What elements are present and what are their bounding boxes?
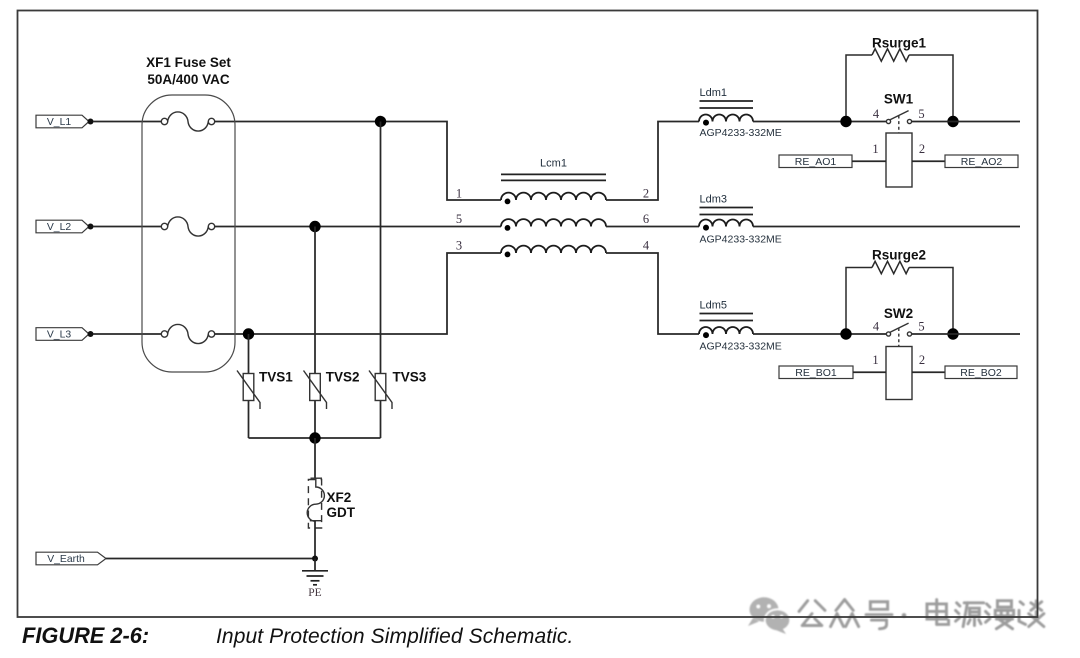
ground PE — [302, 559, 328, 585]
inductor Lcm1 winding 1-2 — [501, 193, 606, 200]
watermark glyph yuan — [956, 603, 984, 627]
fuse F1 (XF1-A) — [161, 112, 214, 131]
inductor Ldm3 core bars — [700, 208, 754, 215]
resistor Rsurge1 — [846, 49, 953, 122]
relay coil box SW2 — [886, 347, 912, 400]
junction dot SW2 left — [840, 328, 851, 339]
svg-text:2: 2 — [643, 187, 649, 201]
svg-text:6: 6 — [643, 212, 649, 226]
svg-text:50A/400 VAC: 50A/400 VAC — [147, 72, 230, 87]
terminal box RE_BO1 — [779, 366, 853, 379]
inductor Lcm1 winding 5-6 — [501, 219, 606, 226]
svg-text:Ldm5: Ldm5 — [700, 300, 728, 312]
wire Ldm3 to right — [753, 226, 1020, 228]
switch SW2 — [886, 323, 911, 346]
svg-text:RE_AO2: RE_AO2 — [961, 156, 1003, 168]
wire Lcm1 pin6 to Ldm3 — [606, 226, 699, 228]
svg-text:Rsurge2: Rsurge2 — [872, 248, 926, 263]
fuse F3 (XF1-C) — [161, 324, 214, 343]
wire SW2 to right — [912, 333, 1020, 335]
svg-text:5: 5 — [918, 107, 924, 121]
svg-text:5: 5 — [918, 320, 924, 334]
transformer Lcm1 core bars — [501, 174, 606, 180]
svg-text:1: 1 — [456, 187, 462, 201]
svg-text:V_L3: V_L3 — [47, 330, 71, 341]
wire TVS bus to GDT — [314, 438, 316, 478]
varistor TVS2 — [304, 371, 327, 410]
svg-text:SW1: SW1 — [884, 92, 914, 107]
resistor Rsurge2 — [846, 261, 953, 334]
varistor TVS3 — [369, 371, 392, 410]
wire V_L2 fuse to Lcm1 pin5 — [215, 226, 501, 228]
svg-text:RE_AO1: RE_AO1 — [795, 156, 837, 168]
svg-text:1: 1 — [872, 353, 878, 367]
wire V_Earth — [106, 558, 315, 560]
wire GDT to earth node — [314, 521, 316, 558]
svg-text:TVS2: TVS2 — [326, 370, 360, 385]
svg-text:AGP4233-332ME: AGP4233-332ME — [700, 234, 782, 246]
svg-text:Ldm3: Ldm3 — [700, 194, 728, 206]
wire V_L3 to fuse — [93, 333, 161, 335]
fuse F2 (XF1-B) — [161, 217, 214, 236]
XF1 fuse set outline — [142, 95, 235, 372]
junction dot TVS1 on V_L3 — [243, 328, 254, 339]
svg-text:GDT: GDT — [327, 505, 356, 520]
watermark glyph zhong — [831, 600, 859, 627]
junction dot SW1 right — [947, 116, 958, 127]
net flag V_Earth — [36, 552, 106, 565]
junction dot TVS bus — [309, 432, 320, 443]
phase dot Ldm1 — [703, 120, 709, 126]
junction dot SW2 right — [947, 328, 958, 339]
watermark glyph gong — [799, 601, 825, 626]
node dot V_L3 — [88, 331, 94, 337]
node dot earth — [312, 556, 318, 562]
wire TVS3 vertical — [380, 122, 382, 439]
wire Lcm1 pin4 to Ldm5 — [606, 253, 699, 334]
node dot V_L2 — [88, 224, 94, 230]
junction dot TVS2 on V_L2 — [309, 221, 320, 232]
svg-text:TVS3: TVS3 — [393, 370, 427, 385]
svg-text:V_Earth: V_Earth — [47, 554, 85, 565]
inductor Ldm5 core bars — [700, 314, 754, 321]
phase dot Ldm3 — [703, 225, 709, 231]
svg-text:FIGURE 2-6:: FIGURE 2-6: — [22, 623, 149, 648]
watermark glyph hao — [866, 602, 892, 629]
junction dot SW1 left — [840, 116, 851, 127]
watermark glyph tan — [1019, 601, 1044, 627]
svg-text:4: 4 — [873, 107, 880, 121]
inductor Ldm1 core bars — [700, 101, 754, 108]
svg-text:AGP4233-332ME: AGP4233-332ME — [700, 127, 782, 139]
gas discharge tube XF2 — [307, 478, 324, 528]
svg-text:PE: PE — [308, 587, 321, 599]
svg-text:V_L2: V_L2 — [47, 222, 71, 233]
watermark glyph dian — [927, 600, 949, 625]
phase dot Ldm5 — [703, 332, 709, 338]
wire V_L1 fuse to corner to Lcm1 pin1 — [215, 122, 501, 201]
wire SW1 to right — [912, 121, 1020, 123]
varistor TVS1 — [237, 371, 260, 410]
svg-text:Rsurge1: Rsurge1 — [872, 36, 927, 51]
inductor Ldm3 winding — [699, 220, 753, 227]
relay coil box SW1 — [886, 133, 912, 187]
svg-text:Lcm1: Lcm1 — [540, 158, 567, 170]
wire V_L1 to fuse — [93, 121, 161, 123]
svg-text:Input Protection Simplified Sc: Input Protection Simplified Schematic. — [216, 625, 573, 648]
wire relay pin2 to RE_AO2 — [912, 160, 945, 162]
watermark glyph man — [986, 601, 1014, 629]
terminal box RE_AO1 — [779, 155, 852, 168]
phase dot Lcm1 winding 5 — [505, 225, 511, 231]
svg-text:SW2: SW2 — [884, 306, 913, 321]
phase dot Lcm1 winding 1 — [505, 199, 511, 205]
wire relay pin2 to RE_BO2 — [912, 371, 945, 373]
svg-text:V_L1: V_L1 — [47, 117, 71, 128]
wire TVS2 vertical — [314, 227, 316, 439]
wire V_L2 to fuse — [93, 226, 161, 228]
wire RE_AO1 to relay pin1 — [852, 160, 886, 162]
wire Ldm5 to SW2 — [753, 333, 886, 335]
terminal box RE_AO2 — [945, 155, 1018, 168]
wire RE_BO1 to relay pin1 — [853, 371, 886, 373]
wire Lcm1 pin2 to Ldm1 — [606, 122, 699, 201]
net flag V_L3 — [36, 328, 89, 341]
switch SW1 — [886, 111, 911, 133]
watermark wechat icon big bubble — [750, 597, 779, 621]
svg-text:4: 4 — [873, 320, 880, 334]
svg-text:AGP4233-332ME: AGP4233-332ME — [700, 341, 782, 353]
inductor Lcm1 winding 3-4 — [501, 246, 606, 253]
svg-text:2: 2 — [919, 353, 925, 367]
svg-text:2: 2 — [919, 142, 925, 156]
terminal box RE_BO2 — [945, 366, 1017, 379]
watermark wechat icon small bubble — [764, 608, 791, 631]
wire TVS1 vertical — [248, 334, 250, 438]
svg-text:TVS1: TVS1 — [259, 370, 293, 385]
svg-text:XF1 Fuse Set: XF1 Fuse Set — [146, 55, 231, 70]
svg-text:4: 4 — [643, 239, 650, 253]
svg-text:3: 3 — [456, 239, 462, 253]
net flag V_L1 — [36, 115, 89, 128]
watermark separator dot — [902, 613, 907, 618]
svg-text:1: 1 — [872, 142, 878, 156]
svg-text:Ldm1: Ldm1 — [700, 87, 728, 99]
wire TVS common bus — [249, 437, 381, 439]
wire V_L3 fuse to corner to Lcm1 pin3 — [215, 253, 501, 334]
junction dot TVS3 on V_L1 — [375, 116, 386, 127]
svg-text:RE_BO2: RE_BO2 — [960, 367, 1002, 379]
wire Ldm1 to SW1 — [753, 121, 886, 123]
net flag V_L2 — [36, 220, 89, 233]
inductor Ldm1 winding — [699, 115, 753, 122]
svg-text:RE_BO1: RE_BO1 — [795, 367, 837, 379]
phase dot Lcm1 winding 3 — [505, 252, 511, 258]
svg-text:5: 5 — [456, 212, 462, 226]
svg-text:XF2: XF2 — [327, 490, 352, 505]
node dot V_L1 — [88, 119, 94, 125]
inductor Ldm5 winding — [699, 327, 753, 334]
